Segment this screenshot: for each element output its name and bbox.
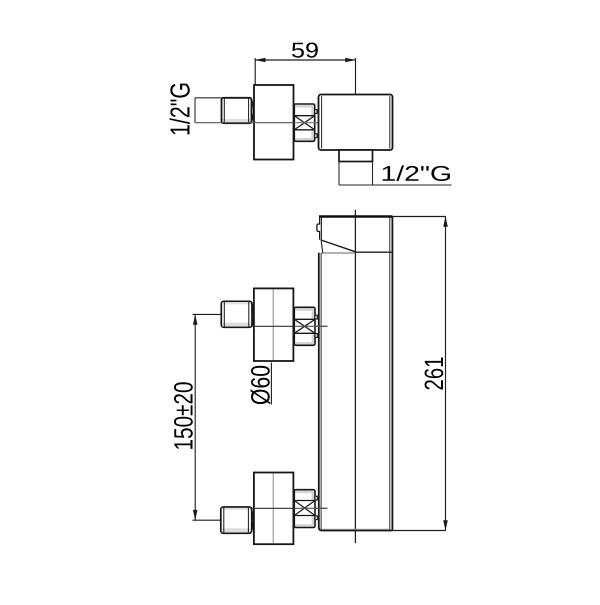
dimension 150±20 leaders [193,314,221,520]
label 1/2"G bottom leader [339,162,452,186]
wall flange top view [254,85,294,160]
dimension 150±20 text (rotated) [174,382,193,449]
bottom connector nubs front view [315,496,317,519]
handle lever diagonal [321,240,356,252]
top inlet cone front view [251,303,253,327]
dimension 59 line [255,58,355,156]
handle lever tip edge [321,241,323,253]
connector nubs top view [315,110,317,138]
body top edge front view [321,252,355,254]
handle left edge [320,216,322,240]
dimension 261 text (rotated) [425,358,444,390]
top valve cartridge connector front view [294,307,327,345]
handle top edge (bold) [319,215,393,218]
top connector nubs front view [315,315,317,337]
bottom wall flange front view [254,473,294,545]
centerline front view [354,210,356,544]
bottom valve centerline front view [252,507,328,509]
nipple cone top view [251,99,253,123]
bottom inlet cone front view [251,508,253,532]
bottom inlet hex nut front view [221,507,252,533]
dimension 59 text [292,43,318,58]
outlet port top view [339,150,373,162]
body inner bottom line [322,528,390,530]
label 1/2"G left text (rotated) [170,84,190,135]
top valve centerline front view [252,325,328,327]
valve centerline top view [195,122,328,124]
handle button bump [317,224,320,232]
label Ø60 text (rotated) [251,366,271,405]
inlet nipple top view [222,98,252,123]
dimension 59 arrows [255,58,355,63]
bottom valve cartridge connector front view [294,490,327,528]
mixer body top view [319,95,393,151]
dimension 261 arrows [443,217,448,531]
label 1/2"G bottom text [383,165,450,181]
dimension 261 extension lines [392,217,445,531]
body sides front view [319,217,393,531]
top wall flange front view [254,288,294,361]
label 1/2"G left bracket [195,98,222,123]
top inlet hex nut front view [221,301,252,327]
label Ø60 underline [270,363,272,405]
dimension 150±20 arrows [193,314,198,520]
valve cartridge connector top view [294,104,328,141]
